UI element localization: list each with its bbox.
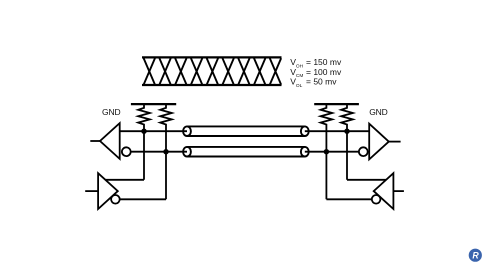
GND rail left [131,103,176,105]
driver right [374,173,394,209]
junction node bottom-right [324,149,329,154]
driver left [98,173,118,209]
wire bottom line right segment [305,151,359,153]
receiver right [369,124,389,160]
wire driver-right inverted output [326,198,372,200]
bubble receiver-right inverting input [359,147,368,156]
svg-text:= 100 mv: = 100 mv [306,67,342,77]
logo [469,249,482,262]
eye pattern bottom rail [142,84,282,86]
resistor left A (to top line) [138,103,150,180]
eye pattern crossings [144,58,281,84]
resistor right B (to top line) [341,103,353,180]
junction node top-right [344,129,349,134]
wire top line right segment [305,130,369,132]
receiver left [100,123,120,159]
bubble driver-left inverting output [111,195,120,204]
svg-text:R: R [472,251,479,261]
wire driver-right input stub [393,190,404,192]
svg-text:GND: GND [369,107,387,117]
svg-text:GND: GND [102,107,120,117]
bubble receiver-left inverting input [122,147,131,156]
wire driver-left input stub [85,190,98,192]
svg-text:= 50 mv: = 50 mv [306,77,337,87]
wire receiver-left output stub [90,140,100,142]
resistor right A (to bottom line) [321,103,333,199]
wire receiver-right output stub [389,141,401,143]
transmission line bottom [183,147,309,157]
resistor left B (to bottom line) [160,103,172,199]
GND rail right [314,103,359,105]
wire driver-left inverted output [120,198,167,200]
transmission line top [183,126,309,136]
wire bottom line left segment [131,151,187,153]
wire driver-right direct output [347,179,388,181]
wire driver-left direct output [105,179,144,181]
svg-text:= 150 mv: = 150 mv [306,57,342,67]
junction node top-left [141,129,146,134]
junction node bottom-left [163,149,168,154]
eye pattern top rail [142,56,282,58]
wire top line left segment [120,130,187,132]
bubble driver-right inverting output [372,195,381,204]
